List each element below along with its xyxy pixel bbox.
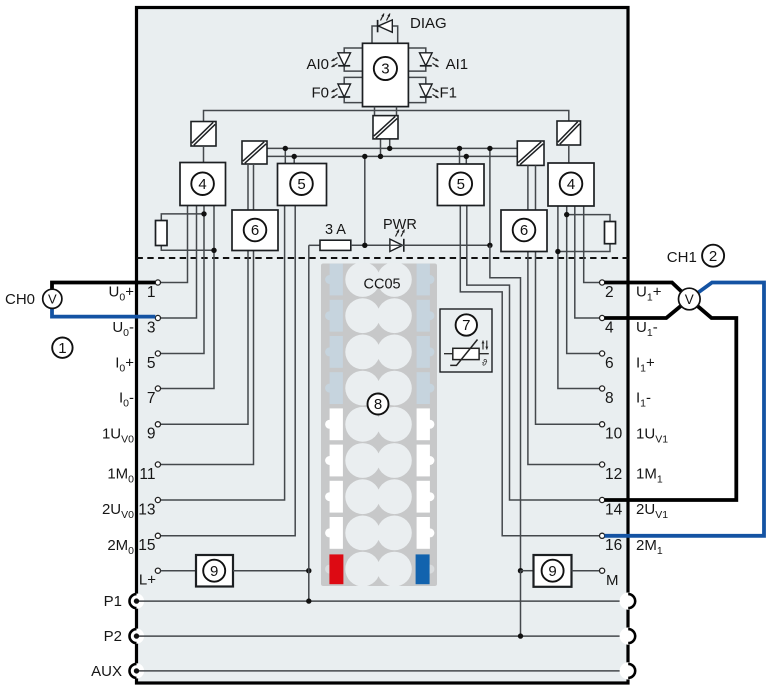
wire U4R to terminal 6 [567, 206, 602, 354]
wire iso barrier top link [204, 111, 569, 122]
F1 LED emission arrows [433, 89, 439, 99]
wire M node to P2 [520, 571, 522, 636]
box 7 temperature monitor [440, 309, 492, 372]
wire R-right bottom [558, 244, 610, 252]
junction lower bus [378, 154, 383, 159]
junction P1 [306, 598, 311, 603]
wire U9 right to M terminal [572, 570, 600, 572]
svg-text:3: 3 [147, 319, 156, 336]
callout 1 voltage measurement ch0 [52, 338, 72, 358]
junction P2 left feed [134, 633, 139, 638]
wire fuse to PWR LED [351, 244, 390, 246]
svg-text:L+: L+ [139, 572, 156, 589]
svg-text:14: 14 [605, 501, 623, 518]
dashed internal/external boundary [137, 257, 629, 259]
svg-text:P2: P2 [104, 628, 122, 645]
svg-text:4: 4 [605, 319, 614, 336]
wire upper supply bus [267, 147, 517, 149]
wire L+ to fuse [309, 244, 320, 246]
wire L+ node riser to fuse [308, 245, 310, 570]
wire iso to U6 left a [247, 164, 249, 210]
svg-text:CH0: CH0 [5, 291, 35, 308]
wire U9 left to L+ node [233, 570, 309, 572]
wire CH0 voltmeter minus (blue) [52, 308, 155, 317]
junction PWR node [362, 243, 367, 248]
svg-text:AI0: AI0 [306, 56, 329, 73]
wire U4L to terminal 3 [158, 206, 197, 319]
svg-text:2: 2 [709, 248, 717, 265]
junction upper bus [283, 146, 288, 151]
terminal 11 circle [155, 462, 160, 467]
svg-text:DIAG: DIAG [410, 15, 447, 32]
wire M node to U9 right [521, 570, 534, 572]
svg-text:6: 6 [520, 222, 528, 239]
wire iso to U4 right [568, 145, 570, 163]
svg-text:11: 11 [139, 466, 155, 483]
wire PWR node to M rail [490, 245, 521, 570]
wire AI0 LED loop [344, 48, 362, 53]
svg-text:1: 1 [58, 340, 66, 357]
wire DIAG LED loop [372, 26, 378, 43]
CC05 coding blue element [416, 554, 430, 584]
wire U6R to terminal 12 [528, 252, 602, 465]
wire iso to U6 right b [535, 165, 537, 210]
svg-text:5: 5 [147, 355, 156, 372]
rail P2 [137, 635, 622, 637]
callout 2 voltage measurement ch1 [702, 245, 724, 267]
wire lower bus to PWR node [364, 156, 366, 245]
left border bump P1 [129, 594, 144, 609]
module enclosure [137, 8, 629, 684]
wire lower supply bus [267, 155, 517, 157]
svg-text:9: 9 [147, 426, 156, 443]
resistor input right [605, 222, 616, 244]
LED F0 [338, 84, 351, 97]
junction L+ node [306, 568, 311, 573]
wire L+ to U9 left [161, 570, 197, 572]
isolation barrier right ch1 [557, 121, 581, 145]
terminal 6 circle [600, 351, 605, 356]
callout 6 right [513, 219, 536, 242]
svg-text:8: 8 [605, 390, 614, 407]
svg-text:10: 10 [605, 426, 623, 443]
callout 4 right [560, 172, 583, 195]
rail AUX [137, 670, 622, 672]
callout 4 left [191, 172, 214, 195]
callout 3 [374, 57, 397, 80]
wire CH0 voltmeter plus (black) [52, 283, 155, 290]
svg-text:AUX: AUX [91, 663, 122, 680]
wire F1 LED loop [408, 77, 425, 84]
wire U3 to center iso a [374, 107, 376, 116]
junction P2 [518, 633, 523, 638]
callout 5 left [290, 172, 313, 195]
wire bus to U5 left pin2 [293, 156, 295, 163]
wire bus to U5 right pin1 [459, 148, 461, 164]
resistor input left [156, 221, 168, 246]
CC05 coding red element [329, 554, 343, 584]
wire center-iso to lower bus [380, 139, 382, 157]
wire U4R to terminal 2 [584, 206, 602, 283]
svg-text:4: 4 [198, 176, 206, 193]
terminal 5 circle [155, 351, 160, 356]
svg-text:CH1: CH1 [667, 249, 697, 266]
AI1 LED emission arrows [433, 58, 439, 68]
svg-text:V: V [48, 292, 57, 307]
wire AI1 LED loop [408, 48, 425, 53]
terminal 8 circle [600, 386, 605, 391]
svg-text:13: 13 [138, 501, 155, 518]
wire iso to U4 left [203, 146, 205, 163]
isolation barrier left ch0 [191, 122, 216, 147]
wire U6R to terminal 10 [536, 252, 603, 425]
terminal 10 circle [600, 422, 605, 427]
LED PWR [390, 239, 404, 252]
junction upper bus [387, 146, 392, 151]
DIAG LED emission arrows [381, 14, 391, 21]
junction AUX left feed [134, 668, 139, 673]
wire center-iso to upper bus [389, 139, 391, 149]
box U5 left supply [278, 164, 327, 206]
terminal 14 circle [600, 497, 605, 502]
box U6 left supply [232, 210, 278, 251]
callout 5 right [450, 172, 473, 195]
wire PWR LED to node [404, 244, 490, 246]
svg-text:F1: F1 [440, 85, 458, 102]
box U3 backplane interface [363, 43, 409, 106]
svg-text:P1: P1 [104, 593, 122, 610]
svg-text:I1+: I1+ [636, 355, 655, 375]
svg-text:AI1: AI1 [446, 56, 469, 73]
svg-text:9: 9 [548, 563, 556, 580]
wire iso to U6 right a [527, 165, 529, 210]
svg-text:7: 7 [147, 390, 156, 407]
wire U4R to terminal 4 [575, 206, 602, 318]
voltmeter V ch0 [43, 289, 62, 308]
terminal L+ circle [155, 568, 160, 573]
svg-text:2: 2 [605, 284, 614, 301]
svg-text:F0: F0 [311, 85, 329, 102]
wire U5R to terminal 16 [460, 206, 602, 536]
junction M node [518, 568, 523, 573]
junction [555, 249, 560, 254]
junction P1 left feed [134, 598, 139, 603]
terminal 15 circle [155, 533, 160, 538]
wire U4L to terminal 7 [158, 206, 214, 389]
junction [211, 248, 216, 253]
junction lower bus [464, 154, 469, 159]
junction lower bus [292, 154, 297, 159]
box U9 left reverse polarity protection [196, 555, 233, 587]
svg-text:6: 6 [251, 222, 259, 239]
wire F0 LED loop [344, 77, 362, 84]
svg-text:1: 1 [147, 284, 156, 301]
terminal M circle [600, 568, 605, 573]
isolation barrier center [373, 116, 398, 139]
svg-text:I0+: I0+ [115, 355, 134, 375]
svg-text:5: 5 [297, 176, 305, 193]
isolation barrier right supply [517, 141, 544, 165]
terminal 4 circle [600, 315, 605, 320]
terminal 13 circle [155, 497, 160, 502]
junction upper bus [487, 146, 492, 151]
AI0 LED emission arrows [332, 58, 338, 68]
junction [564, 212, 569, 217]
terminal 12 circle [600, 462, 605, 467]
LED AI0 [338, 53, 351, 66]
wire U6L to terminal 9 [158, 251, 248, 425]
svg-text:7: 7 [462, 317, 470, 334]
right border bump P2 [620, 628, 637, 645]
voltmeter V ch1 [679, 288, 701, 310]
fuse F1 3A [320, 240, 351, 250]
wire L+ node to P1 [308, 571, 310, 601]
svg-text:8: 8 [374, 396, 382, 413]
svg-text:6: 6 [605, 355, 614, 372]
rail P1 [137, 600, 622, 602]
svg-text:V: V [685, 292, 694, 307]
svg-text:PWR: PWR [383, 217, 417, 233]
junction lower bus [362, 154, 367, 159]
wire U5R to terminal 14 [467, 206, 602, 501]
svg-text:M: M [606, 572, 619, 589]
svg-text:5: 5 [457, 176, 465, 193]
right border bump AUX [620, 662, 637, 679]
svg-text:4: 4 [567, 176, 575, 193]
wire CH1 loop to terminal 16 (blue) [605, 283, 765, 536]
wire U5L to terminal 15 [158, 206, 295, 536]
terminal 7 circle [155, 386, 160, 391]
wire U3 to center iso b [396, 107, 398, 116]
wire CH1 loop to terminal 14 (black) [605, 299, 737, 500]
callout 9 left [203, 560, 225, 582]
wire bus to U5 right pin2 [465, 156, 467, 164]
LED DIAG [378, 20, 393, 32]
wire CH1 U1- (black) [605, 299, 690, 318]
wire iso to U6 left b [253, 164, 255, 210]
LED F1 [420, 84, 433, 97]
svg-text:16: 16 [605, 537, 622, 554]
svg-text:3 A: 3 A [325, 222, 346, 238]
terminal 1 circle [155, 280, 160, 285]
box U5 right supply [437, 164, 484, 206]
svg-text:3: 3 [381, 61, 389, 78]
terminal 2 circle [600, 280, 605, 285]
junction PWR output node [487, 243, 492, 248]
callout 8 BaseUnit [368, 394, 389, 415]
thermistor symbol [444, 340, 489, 368]
box U6 right supply [501, 210, 547, 252]
box U9 right [534, 555, 572, 587]
wire upper bus to PWR output node [489, 148, 491, 245]
terminal 3 circle [155, 315, 160, 320]
isolation barrier left supply [242, 141, 267, 164]
junction upper bus [457, 146, 462, 151]
LED AI1 [420, 53, 433, 66]
wire bus to U5 left pin1 [284, 148, 286, 163]
callout 7 [456, 314, 477, 335]
PWR LED emission arrows [396, 230, 405, 237]
box U4 right ADC [548, 163, 594, 206]
F0 LED emission arrows [332, 89, 338, 99]
wire U6L to terminal 11 [158, 251, 254, 465]
terminal 9 circle [155, 422, 160, 427]
wire R-right top [567, 215, 610, 222]
wire R-left top [161, 214, 204, 221]
callout 6 left [244, 219, 267, 242]
box U4 left ADC [180, 163, 226, 206]
wire R-left bottom [161, 246, 214, 251]
wire U4L to terminal 1 [158, 206, 188, 283]
callout 9 right [542, 560, 564, 582]
svg-text:9: 9 [210, 563, 218, 580]
junction [201, 211, 206, 216]
svg-text:12: 12 [605, 466, 622, 483]
wire U4L to terminal 5 [158, 206, 204, 354]
right border bump P1 [620, 593, 637, 610]
svg-text:CC05: CC05 [364, 277, 401, 293]
wire U5L to terminal 13 [158, 206, 285, 501]
wire U4R to terminal 8 [558, 206, 602, 389]
wire CH1 U1+ (black) [605, 283, 690, 300]
terminal 16 circle [600, 533, 605, 538]
svg-text:15: 15 [138, 537, 155, 554]
